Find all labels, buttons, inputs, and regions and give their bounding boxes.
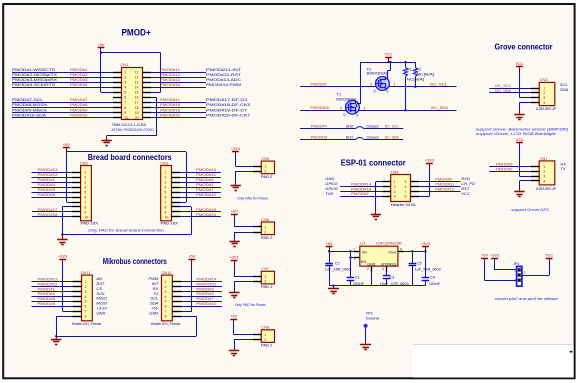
svg-text:2: 2 xyxy=(84,176,86,180)
svg-text:1: 1 xyxy=(264,333,266,337)
svg-text:1: 1 xyxy=(394,180,396,184)
svg-text:PMOD#13-ADC: PMOD#13-ADC xyxy=(206,77,241,82)
svg-text:PMOD#2: PMOD#2 xyxy=(496,166,513,171)
svg-text:PMOD#17: PMOD#17 xyxy=(160,97,181,102)
svg-text:10nF_X7R_0603: 10nF_X7R_0603 xyxy=(380,282,409,286)
svg-text:4: 4 xyxy=(164,186,166,190)
svg-text:GND: GND xyxy=(96,311,105,316)
svg-text:+3V3: +3V3 xyxy=(58,255,67,259)
svg-text:RXD: RXD xyxy=(461,176,470,181)
svg-text:4: 4 xyxy=(84,186,86,190)
svg-text:PMOD#20: PMOD#20 xyxy=(160,112,181,117)
svg-text:PMOD#19-DF-D7: PMOD#19-DF-D7 xyxy=(206,107,248,112)
svg-text:8: 8 xyxy=(405,195,407,199)
svg-text:GPIO0: GPIO0 xyxy=(325,186,338,191)
svg-text:PMOD#13: PMOD#13 xyxy=(351,186,372,191)
svg-text:I2C_SCL: I2C_SCL xyxy=(495,83,512,88)
svg-text:1: 1 xyxy=(84,171,86,175)
svg-text:SDA: SDA xyxy=(560,87,569,92)
svg-text:EN: EN xyxy=(361,260,367,264)
svg-text:PMOD#3: PMOD#3 xyxy=(196,177,214,182)
svg-text:VCC: VCC xyxy=(461,191,470,196)
svg-text:6: 6 xyxy=(164,195,166,199)
svg-text:PMOD#7-SCL: PMOD#7-SCL xyxy=(12,97,44,102)
svg-text:TX: TX xyxy=(153,291,158,296)
svg-text:U1: U1 xyxy=(360,240,366,245)
svg-text:9: 9 xyxy=(164,210,166,214)
svg-text:Header 4X2A: Header 4X2A xyxy=(391,203,417,207)
svg-text:PMOD#19: PMOD#19 xyxy=(160,107,181,112)
svg-text:LDK120M33R: LDK120M33R xyxy=(376,240,402,245)
svg-text:3: 3 xyxy=(340,106,342,110)
svg-text:PAD 2: PAD 2 xyxy=(261,344,273,348)
svg-text:PMOD#12: PMOD#12 xyxy=(38,172,59,177)
svg-text:10: 10 xyxy=(84,215,88,219)
svg-text:3: 3 xyxy=(165,290,167,294)
svg-text:C1: C1 xyxy=(355,276,360,280)
svg-text:PMOD#4-SCK/RTS: PMOD#4-SCK/RTS xyxy=(12,82,55,87)
svg-text:15: 15 xyxy=(135,91,139,95)
svg-text:+3V3: +3V3 xyxy=(230,256,239,260)
svg-text:2: 2 xyxy=(524,271,526,275)
svg-text:2: 2 xyxy=(124,75,126,79)
svg-text:I2C_SDA: I2C_SDA xyxy=(495,88,511,93)
svg-text:PMOD#12: PMOD#12 xyxy=(160,72,181,77)
svg-text:PMOD#11: PMOD#11 xyxy=(196,281,217,286)
svg-text:Grove connector: Grove connector xyxy=(495,43,553,52)
svg-text:PMOD#12: PMOD#12 xyxy=(435,186,455,191)
svg-text:PMOD#10-SDA: PMOD#10-SDA xyxy=(12,112,46,117)
svg-text:3: 3 xyxy=(84,181,86,185)
svg-text:PMOD#10: PMOD#10 xyxy=(311,135,328,140)
svg-text:+5V: +5V xyxy=(98,43,105,47)
svg-text:+3V3: +3V3 xyxy=(490,253,499,257)
svg-text:7: 7 xyxy=(85,310,87,314)
svg-text:3: 3 xyxy=(543,96,545,100)
svg-text:PMOD#17-DF-D3: PMOD#17-DF-D3 xyxy=(206,97,248,102)
svg-text:Vout: Vout xyxy=(388,250,397,254)
svg-text:Closed: Closed xyxy=(367,124,379,129)
svg-text:13: 13 xyxy=(135,81,139,85)
svg-text:3: 3 xyxy=(124,81,126,85)
svg-text:6: 6 xyxy=(85,305,87,309)
svg-text:PMOD#7: PMOD#7 xyxy=(196,296,214,301)
svg-text:PMOD#8: PMOD#8 xyxy=(38,192,56,197)
svg-text:PMOD#2: PMOD#2 xyxy=(70,72,88,77)
svg-text:JP1: JP1 xyxy=(513,261,520,266)
svg-text:INT: INT xyxy=(152,281,159,286)
svg-text:2: 2 xyxy=(264,338,266,342)
svg-text:3: 3 xyxy=(164,181,166,185)
svg-text:PMOD#20-DF-CK7: PMOD#20-DF-CK7 xyxy=(206,112,251,117)
svg-text:SH1: SH1 xyxy=(346,135,354,140)
svg-text:PMOD#14: PMOD#14 xyxy=(351,181,372,186)
svg-text:ATOM: PH2002100-07000: ATOM: PH2002100-07000 xyxy=(112,128,154,132)
svg-text:S: S xyxy=(356,113,358,117)
svg-text:7: 7 xyxy=(164,200,166,204)
svg-text:PMOD#13: PMOD#13 xyxy=(38,276,59,281)
svg-text:PMOD#9: PMOD#9 xyxy=(38,296,56,301)
svg-text:PMOD#8-MOSIx: PMOD#8-MOSIx xyxy=(12,102,47,107)
svg-text:16: 16 xyxy=(135,96,139,100)
svg-text:1: 1 xyxy=(164,171,166,175)
svg-text:PMOD#13: PMOD#13 xyxy=(160,77,181,82)
svg-text:C3: C3 xyxy=(389,276,394,280)
svg-text:TX: TX xyxy=(560,166,565,171)
svg-text:SCL: SCL xyxy=(560,82,568,87)
svg-text:SH2: SH2 xyxy=(346,124,354,129)
svg-text:PMOD#12-RST: PMOD#12-RST xyxy=(206,72,242,77)
svg-text:+5V: +5V xyxy=(481,253,488,257)
svg-text:1: 1 xyxy=(124,70,126,74)
svg-text:7: 7 xyxy=(405,190,407,194)
svg-text:5: 5 xyxy=(400,247,402,251)
svg-text:NC[N/A]: NC[N/A] xyxy=(407,78,425,82)
svg-text:PMOD#9: PMOD#9 xyxy=(70,107,88,112)
svg-text:PAD 2: PAD 2 xyxy=(261,236,273,240)
svg-text:1: 1 xyxy=(364,106,366,110)
svg-text:4: 4 xyxy=(394,195,396,199)
svg-text:C4: C4 xyxy=(430,276,435,280)
svg-text:support Grove- Barometer senso: support Grove- Barometer sensor (BMP180) xyxy=(476,128,569,132)
svg-text:PMOD#10: PMOD#10 xyxy=(70,112,88,117)
svg-text:SDA: SDA xyxy=(150,301,159,306)
svg-text:1: 1 xyxy=(264,275,266,279)
svg-text:SCK: SCK xyxy=(96,291,105,296)
svg-text:GPIO2: GPIO2 xyxy=(325,181,338,186)
svg-text:8: 8 xyxy=(85,315,87,319)
svg-text:9: 9 xyxy=(124,111,126,115)
svg-text:Only PAD for Power: Only PAD for Power xyxy=(237,196,269,201)
svg-text:1: 1 xyxy=(264,165,266,169)
svg-text:PMOD#14: PMOD#14 xyxy=(196,167,217,172)
svg-text:PMOD#3-MISOp/RX: PMOD#3-MISOp/RX xyxy=(12,77,57,82)
svg-text:CN5: CN5 xyxy=(261,156,269,161)
svg-text:PMOD#14: PMOD#14 xyxy=(160,82,181,87)
svg-text:RST: RST xyxy=(461,186,470,191)
svg-text:PAD 10X: PAD 10X xyxy=(161,222,179,226)
svg-text:12: 12 xyxy=(135,75,139,79)
svg-text:7: 7 xyxy=(165,310,167,314)
svg-text:R2: R2 xyxy=(416,67,421,71)
svg-text:PMOD#14-PWM: PMOD#14-PWM xyxy=(206,82,242,87)
svg-text:4: 4 xyxy=(85,295,87,299)
svg-text:Mikrobus connectors: Mikrobus connectors xyxy=(103,257,167,266)
svg-text:PMOD#1: PMOD#1 xyxy=(70,67,88,72)
svg-text:TP1: TP1 xyxy=(366,311,373,316)
svg-text:6: 6 xyxy=(124,96,126,100)
svg-text:9: 9 xyxy=(84,210,86,214)
svg-text:PMOD#2-MOSIp/TX: PMOD#2-MOSIp/TX xyxy=(12,72,57,77)
svg-text:VCC: VCC xyxy=(545,253,553,257)
svg-text:TMM-110-01-L-D-RA: TMM-110-01-L-D-RA xyxy=(112,123,147,127)
svg-text:PMOD#4: PMOD#4 xyxy=(38,291,56,296)
svg-text:GND: GND xyxy=(325,176,334,181)
svg-text:2: 2 xyxy=(367,267,369,271)
svg-text:17: 17 xyxy=(135,101,139,105)
svg-text:MISO: MISO xyxy=(96,296,107,301)
svg-text:14: 14 xyxy=(135,86,139,90)
svg-text:RX: RX xyxy=(560,161,566,166)
svg-text:+5V: +5V xyxy=(326,242,333,246)
svg-text:CN7: CN7 xyxy=(540,156,548,161)
svg-text:1: 1 xyxy=(394,83,396,87)
svg-text:PMOD#13: PMOD#13 xyxy=(38,167,59,172)
svg-text:S: S xyxy=(386,90,388,94)
svg-text:+3V3: +3V3 xyxy=(421,242,430,246)
svg-text:C2: C2 xyxy=(335,261,340,265)
svg-text:Ground: Ground xyxy=(366,315,379,320)
svg-text:PMOD#18: PMOD#18 xyxy=(160,102,181,107)
svg-text:1uF_X5R_0603: 1uF_X5R_0603 xyxy=(325,268,351,272)
svg-text:1: 1 xyxy=(85,280,87,284)
svg-text:PMOD#11-INT: PMOD#11-INT xyxy=(206,67,242,72)
svg-text:CN4: CN4 xyxy=(391,169,400,174)
svg-text:PMOD#8: PMOD#8 xyxy=(38,301,56,306)
svg-text:1: 1 xyxy=(353,247,355,251)
svg-text:8: 8 xyxy=(84,205,86,209)
svg-text:7: 7 xyxy=(84,200,86,204)
svg-text:PMOD#2: PMOD#2 xyxy=(196,182,214,187)
svg-text:100nF: 100nF xyxy=(353,282,365,286)
svg-text:closed pin2 and pin3 for defau: closed pin2 and pin3 for default xyxy=(495,296,559,301)
svg-text:4: 4 xyxy=(382,267,384,271)
svg-text:5: 5 xyxy=(405,180,407,184)
svg-text:PMOD#20: PMOD#20 xyxy=(196,212,217,217)
svg-text:2: 2 xyxy=(85,285,87,289)
svg-text:+3V3: +3V3 xyxy=(425,159,434,163)
svg-text:8: 8 xyxy=(165,315,167,319)
svg-text:CN2: CN2 xyxy=(80,160,88,165)
svg-text:1: 1 xyxy=(514,268,516,272)
svg-text:support Grove NFC: support Grove NFC xyxy=(511,208,549,212)
svg-text:NC[N/A]: NC[N/A] xyxy=(417,73,435,77)
svg-text:T2: T2 xyxy=(367,67,372,72)
svg-text:RX: RX xyxy=(153,286,159,291)
svg-text:3: 3 xyxy=(514,279,516,283)
svg-text:CS: CS xyxy=(96,286,102,291)
svg-text:+5V: +5V xyxy=(151,306,160,311)
svg-text:VCC: VCC xyxy=(384,53,392,57)
svg-text:PMOD#1: PMOD#1 xyxy=(38,177,56,182)
svg-text:2: 2 xyxy=(543,91,545,95)
svg-text:4: 4 xyxy=(543,101,545,105)
svg-text:CN7: CN7 xyxy=(261,266,269,271)
svg-text:GND: GND xyxy=(367,262,375,266)
svg-text:PAD 2: PAD 2 xyxy=(261,285,273,289)
svg-text:8: 8 xyxy=(124,106,126,110)
svg-text:Header 8X1_Female: Header 8X1_Female xyxy=(72,322,102,326)
svg-text:MOSI: MOSI xyxy=(96,301,107,306)
svg-text:PMOD#4: PMOD#4 xyxy=(38,182,56,187)
svg-text:+3V3: +3V3 xyxy=(231,147,240,151)
svg-text:PMOD#9-MISOx: PMOD#9-MISOx xyxy=(12,107,47,112)
svg-text:1: 1 xyxy=(543,165,545,169)
svg-text:AN: AN xyxy=(95,276,102,281)
svg-text:7: 7 xyxy=(124,101,126,105)
svg-text:6: 6 xyxy=(165,305,167,309)
svg-text:PMOD#3: PMOD#3 xyxy=(196,286,214,291)
svg-text:Closed: Closed xyxy=(367,135,379,140)
svg-text:PMOD#7: PMOD#7 xyxy=(196,187,214,192)
svg-text:CN10: CN10 xyxy=(162,270,173,275)
svg-text:T1: T1 xyxy=(336,91,341,96)
svg-text:PMOD#11: PMOD#11 xyxy=(196,172,217,177)
svg-text:10: 10 xyxy=(164,215,168,219)
svg-text:Bread board connectors: Bread board connectors xyxy=(88,153,172,162)
svg-text:TXD: TXD xyxy=(325,191,333,196)
svg-text:1: 1 xyxy=(543,86,545,90)
svg-text:18: 18 xyxy=(135,106,139,110)
svg-text:2: 2 xyxy=(543,170,545,174)
svg-text:CN8: CN8 xyxy=(261,325,269,330)
svg-text:5: 5 xyxy=(84,190,86,194)
svg-text:3: 3 xyxy=(543,175,545,179)
svg-text:PMOD#11: PMOD#11 xyxy=(160,67,181,72)
svg-text:BSN20[N/A]: BSN20[N/A] xyxy=(336,98,356,102)
svg-text:PMOD#14: PMOD#14 xyxy=(196,276,217,281)
svg-text:1: 1 xyxy=(165,280,167,284)
svg-text:I2C_SCL: I2C_SCL xyxy=(385,124,400,129)
svg-text:2: 2 xyxy=(394,185,396,189)
svg-text:PMOD#17: PMOD#17 xyxy=(38,207,59,212)
svg-text:VCC: VCC xyxy=(515,138,523,142)
svg-text:PMOD#19: PMOD#19 xyxy=(196,207,217,212)
svg-text:PMOD#10: PMOD#10 xyxy=(196,192,217,197)
svg-text:Vin: Vin xyxy=(362,250,367,254)
svg-text:4: 4 xyxy=(124,86,126,90)
svg-text:11: 11 xyxy=(135,70,139,74)
svg-text:PMOD#7: PMOD#7 xyxy=(311,124,328,129)
svg-text:I2C_SCL: I2C_SCL xyxy=(430,82,448,87)
svg-text:GND: GND xyxy=(149,311,158,316)
svg-text:2: 2 xyxy=(264,230,266,234)
svg-text:C5: C5 xyxy=(417,261,422,265)
svg-text:2: 2 xyxy=(164,176,166,180)
svg-text:20: 20 xyxy=(135,116,139,120)
svg-text:10: 10 xyxy=(124,116,128,120)
svg-text:5: 5 xyxy=(124,91,126,95)
svg-text:PAD 10X: PAD 10X xyxy=(81,222,99,226)
svg-text:BSN20[N/A]: BSN20[N/A] xyxy=(367,72,387,76)
svg-text:CH_PD: CH_PD xyxy=(461,181,475,186)
svg-text:2: 2 xyxy=(165,285,167,289)
svg-text:PMOD#10: PMOD#10 xyxy=(310,105,330,110)
svg-text:PMOD#11: PMOD#11 xyxy=(435,181,455,186)
svg-text:3: 3 xyxy=(394,190,396,194)
svg-text:PMOD#9: PMOD#9 xyxy=(38,187,56,192)
svg-text:2: 2 xyxy=(264,280,266,284)
svg-text:1: 1 xyxy=(264,225,266,229)
svg-text:PMOD#1-WSS/CTS: PMOD#1-WSS/CTS xyxy=(12,67,55,72)
svg-text:PMOD#2: PMOD#2 xyxy=(196,291,214,296)
svg-text:1125S-8MT-4P: 1125S-8MT-4P xyxy=(536,187,557,191)
svg-text:PMOD#12: PMOD#12 xyxy=(38,281,59,286)
svg-text:Only PAD for bread board conne: Only PAD for bread board connection xyxy=(88,227,164,232)
svg-text:3: 3 xyxy=(85,290,87,294)
svg-text:PAD 2: PAD 2 xyxy=(261,175,273,179)
svg-text:CN3: CN3 xyxy=(160,160,168,165)
svg-text:PMOD#2: PMOD#2 xyxy=(351,191,369,196)
svg-text:PMOD#8: PMOD#8 xyxy=(70,102,88,107)
svg-text:3: 3 xyxy=(370,83,372,87)
svg-text:PWM: PWM xyxy=(148,276,159,281)
svg-text:CN6: CN6 xyxy=(261,217,269,222)
svg-text:+5V: +5V xyxy=(231,209,238,213)
svg-text:PMOD#3: PMOD#3 xyxy=(496,162,513,167)
svg-text:PMOD#18: PMOD#18 xyxy=(38,212,59,217)
svg-text:+3.3V: +3.3V xyxy=(96,306,108,311)
svg-text:8: 8 xyxy=(164,205,166,209)
svg-text:PMOD#7: PMOD#7 xyxy=(310,82,327,87)
svg-text:PMOD+: PMOD+ xyxy=(122,27,151,37)
svg-text:4: 4 xyxy=(543,179,545,183)
svg-text:6: 6 xyxy=(405,185,407,189)
svg-text:PMOD#8: PMOD#8 xyxy=(435,176,452,181)
svg-text:+5V: +5V xyxy=(230,315,237,319)
svg-text:100nF: 100nF xyxy=(429,282,441,286)
svg-text:CN1: CN1 xyxy=(121,62,129,67)
svg-text:CN11: CN11 xyxy=(81,270,91,275)
svg-text:PMOD#10: PMOD#10 xyxy=(196,301,217,306)
svg-text:4: 4 xyxy=(165,295,167,299)
svg-text:RST: RST xyxy=(96,281,105,286)
svg-text:19: 19 xyxy=(135,111,139,115)
svg-text:6: 6 xyxy=(84,195,86,199)
svg-text:CN3: CN3 xyxy=(540,77,548,82)
svg-text:1125S-8MT-4P: 1125S-8MT-4P xyxy=(536,107,557,111)
svg-text:+5V: +5V xyxy=(63,143,70,147)
svg-text:5: 5 xyxy=(164,190,166,194)
svg-text:support Grove- LCD RGB Backlig: support Grove- LCD RGB Backlight xyxy=(476,132,557,136)
svg-text:5: 5 xyxy=(165,300,167,304)
svg-text:SCL: SCL xyxy=(150,296,158,301)
svg-text:PMOD#3: PMOD#3 xyxy=(70,77,88,82)
svg-text:PMOD#7: PMOD#7 xyxy=(70,97,88,102)
svg-text:+5V: +5V xyxy=(188,255,195,259)
svg-text:PMOD#4: PMOD#4 xyxy=(70,82,88,87)
svg-text:PMOD#18-DF-CK3: PMOD#18-DF-CK3 xyxy=(206,102,251,107)
svg-text:ESP-01 connector: ESP-01 connector xyxy=(341,158,406,167)
svg-text:Header 8X1_Female: Header 8X1_Female xyxy=(151,322,181,326)
svg-text:VCC: VCC xyxy=(515,62,523,66)
svg-text:PMOD#1: PMOD#1 xyxy=(38,286,56,291)
svg-text:I2C_SDA: I2C_SDA xyxy=(385,135,399,140)
svg-text:1uF_X5R_0603: 1uF_X5R_0603 xyxy=(415,268,441,272)
svg-text:2: 2 xyxy=(264,170,266,174)
svg-text:BYPASS: BYPASS xyxy=(381,262,397,266)
svg-text:Only PAD for Power: Only PAD for Power xyxy=(235,302,267,307)
svg-text:I2C_SDA: I2C_SDA xyxy=(431,105,449,110)
svg-text:R1: R1 xyxy=(407,67,412,71)
svg-text:5: 5 xyxy=(85,300,87,304)
